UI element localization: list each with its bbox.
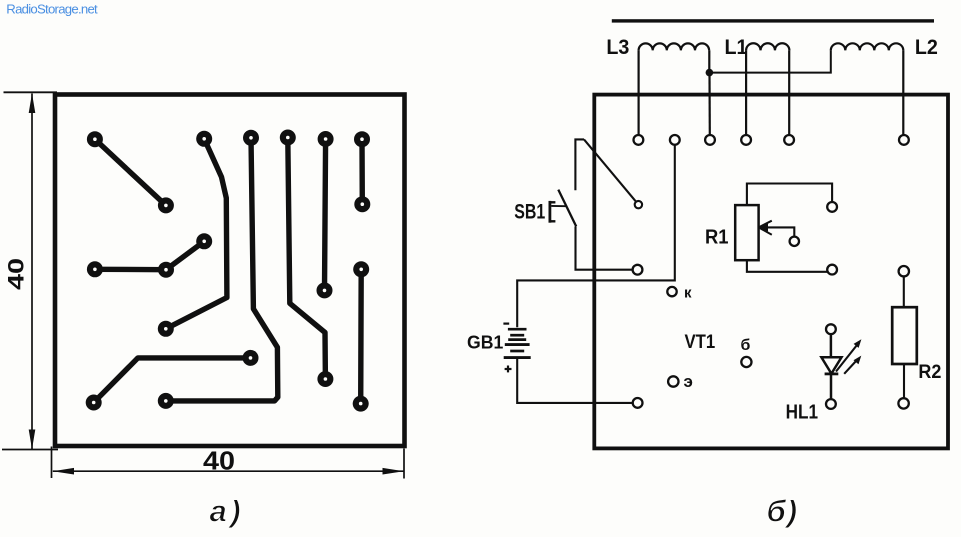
svg-text:R1: R1	[705, 226, 729, 248]
pad e (emitter)	[668, 376, 678, 386]
trace C1-D2	[166, 241, 204, 269]
svg-text:GB1: GB1	[467, 333, 503, 353]
pad B2	[354, 196, 370, 212]
LED HL1	[821, 324, 841, 409]
pad D1	[87, 261, 103, 277]
wire pad2 to battery top	[517, 145, 675, 327]
inductor L3	[639, 43, 710, 135]
svg-text:40: 40	[3, 258, 28, 290]
battery minus sign	[503, 323, 509, 325]
inductor L2	[831, 43, 904, 135]
svg-text:RadioStorage.net: RadioStorage.net	[6, 1, 98, 16]
pad A3	[243, 130, 259, 146]
trace P15-P16	[94, 358, 251, 403]
pad SB1 top	[635, 201, 642, 208]
wire junction to L2	[709, 50, 830, 72]
pad P19	[353, 396, 369, 412]
dimension extension line bottom-left	[2, 449, 58, 451]
svg-text:SB1: SB1	[514, 201, 545, 224]
pad A6	[354, 131, 370, 147]
ferrite rod	[612, 19, 934, 22]
pad A4	[280, 130, 296, 146]
pad A2	[196, 131, 212, 147]
wire battery bottom to pad	[517, 358, 633, 403]
pad P17	[158, 393, 174, 409]
pad P14	[158, 321, 174, 337]
pad hole 6	[899, 135, 909, 145]
svg-text:R2: R2	[918, 362, 941, 383]
pad R1 wiper	[790, 237, 799, 246]
pad B1	[158, 197, 174, 213]
pad hole 5	[784, 135, 794, 145]
pad hole 3	[705, 135, 715, 145]
trace A1-B1	[95, 139, 166, 205]
wire junction to pad 3	[708, 73, 710, 136]
pad D2	[158, 262, 174, 278]
wire SB1 to pad (diagonal)	[584, 139, 636, 201]
trace A6-B2	[359, 139, 365, 204]
trace A3-P17	[166, 138, 278, 401]
switch SB1	[549, 139, 584, 226]
trace A4-P18	[288, 138, 326, 380]
dimension line vertical 40	[29, 93, 36, 449]
pad hole 4	[741, 135, 751, 145]
trace P13-P19	[358, 269, 364, 403]
pad P15	[243, 350, 259, 366]
battery GB1	[504, 329, 531, 357]
trace A2-P14	[166, 139, 227, 329]
inductor L1	[746, 43, 789, 135]
PCB board outline (panel a)	[55, 95, 405, 447]
pad b (base)	[741, 357, 751, 367]
pad SB1 bottom	[633, 265, 643, 275]
potentiometer R1	[735, 184, 832, 272]
pad P16	[86, 395, 102, 411]
svg-text:L3: L3	[606, 36, 629, 59]
pad P12	[317, 282, 333, 298]
dimension extension line bottom dim left	[51, 447, 53, 479]
pad hole 1	[634, 135, 644, 145]
svg-text:э: э	[684, 372, 693, 391]
pad hole 2	[670, 135, 680, 145]
trace D1-D2	[95, 267, 166, 273]
svg-text:L1: L1	[725, 36, 748, 59]
svg-text:VT1: VT1	[685, 331, 716, 353]
pad A1	[87, 131, 103, 147]
pad R1 bottom	[827, 265, 837, 275]
pad A5	[318, 131, 334, 147]
LED arrow 1	[836, 339, 861, 371]
svg-text:HL1: HL1	[786, 402, 818, 424]
junction node	[706, 69, 714, 77]
battery plus sign	[505, 366, 512, 373]
component board outline (panel b)	[594, 95, 948, 449]
dimension extension line top	[4, 91, 58, 93]
LED arrow 2	[844, 356, 861, 374]
trace A5-P12	[325, 139, 326, 290]
resistor R2	[892, 266, 917, 409]
pad R1 top	[827, 202, 837, 212]
pad emitter wire end	[633, 398, 643, 408]
svg-text:L2: L2	[915, 36, 938, 59]
svg-text:40: 40	[203, 446, 235, 476]
dimension extension line bottom dim right	[403, 449, 405, 479]
svg-text:к: к	[684, 284, 692, 301]
svg-text:б): б)	[767, 494, 799, 529]
pad k (collector)	[667, 287, 676, 296]
pad P13	[353, 261, 369, 277]
svg-text:а): а)	[210, 494, 245, 529]
pad P18	[317, 371, 333, 387]
svg-text:б: б	[741, 337, 751, 354]
pad C1	[196, 233, 212, 249]
dimension line horizontal 40	[53, 468, 404, 475]
wire SB1 bottom	[576, 226, 633, 269]
